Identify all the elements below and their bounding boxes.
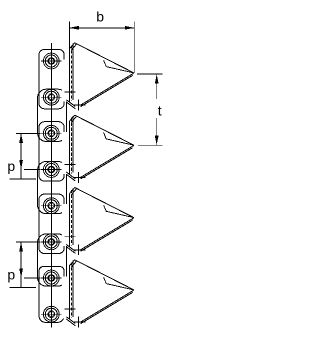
scraper S1 top bevel xyxy=(70,43,77,50)
dimension t arrow bottom xyxy=(155,136,159,145)
dimension p (lower) leader hook xyxy=(10,278,37,287)
dimension b line xyxy=(69,27,134,29)
scraper S3 hidden edge (dashed) xyxy=(70,190,72,246)
scraper S4 hidden edge (dashed) xyxy=(70,262,72,318)
roller R4 xyxy=(41,162,62,178)
scraper S3 bottom edge (double) xyxy=(80,218,134,252)
dimension p (lower) arrow top xyxy=(19,242,23,251)
dimension p (upper) arrow top xyxy=(19,134,23,143)
scraper S4 left edge xyxy=(69,266,71,320)
dimension t line lower segment xyxy=(156,118,158,145)
scraper S3 plate right edge xyxy=(72,188,74,245)
dimension b arrow right xyxy=(125,26,134,30)
scraper S2 strap occluder (hides chain edges behind) xyxy=(62,132,69,174)
dimension t extension line bottom xyxy=(138,144,163,146)
svg-text:p: p xyxy=(7,158,15,174)
scraper S1 plate right edge xyxy=(72,44,74,100)
chain centerline xyxy=(50,43,52,327)
scraper S4 top edge xyxy=(75,260,134,290)
roller R7 xyxy=(41,270,62,286)
dimension p (lower) extension line top xyxy=(16,241,41,243)
chain outer link plate 4 xyxy=(39,266,64,322)
scraper S4 face flange xyxy=(104,277,134,290)
scraper S2 top bevel xyxy=(70,115,77,122)
scraper S1 bottom edge (double) xyxy=(80,73,134,107)
dimension p (upper) extension line top xyxy=(16,132,41,134)
scraper S1 hidden edge (dashed) xyxy=(70,45,72,101)
scraper S2 bottom corner cross mark xyxy=(74,172,86,183)
scraper S2 plate right edge xyxy=(72,116,74,173)
dimension p (lower) arrow bottom xyxy=(19,268,23,277)
chain outer link plate 1 xyxy=(39,49,64,108)
dimension t arrow top xyxy=(155,74,159,83)
scraper S2 hidden edge (dashed) xyxy=(70,118,72,174)
dimension b extension line right xyxy=(133,21,135,72)
scraper S3 bottom corner cross mark xyxy=(74,244,86,255)
dimension t extension line top xyxy=(137,73,163,75)
scraper S1 face flange xyxy=(104,60,134,73)
chain inner link plate 1 xyxy=(38,89,67,141)
scraper S1 strap occluder (hides chain edges behind) xyxy=(62,60,69,102)
chain inner link plate 2 xyxy=(38,162,67,214)
roller R2 xyxy=(41,89,62,105)
scraper S3 bottom bevel xyxy=(66,244,75,253)
chain inner link plate 3 xyxy=(38,234,67,286)
scraper S4 top bevel xyxy=(70,260,77,267)
svg-text:t: t xyxy=(158,103,162,119)
svg-text:p: p xyxy=(7,267,15,283)
scraper S4 bottom edge (double) xyxy=(80,290,134,324)
dimension b extension line left xyxy=(68,22,70,50)
scraper S2 left edge xyxy=(69,121,71,175)
scraper S4 plate bend line xyxy=(65,308,76,310)
scraper S2 plate bend line xyxy=(65,163,76,165)
roller R6 xyxy=(41,234,62,250)
scraper S4 bottom bevel xyxy=(66,317,75,326)
scraper S2 face flange xyxy=(104,133,134,146)
scraper S3 top bevel xyxy=(70,188,77,195)
svg-text:b: b xyxy=(96,8,104,24)
scraper S1 top edge xyxy=(75,43,134,73)
roller R1 xyxy=(41,53,62,69)
scraper S3 strap occluder (hides chain edges behind) xyxy=(62,204,69,246)
scraper S1 plate bend line xyxy=(65,91,76,93)
roller R5 xyxy=(41,198,62,214)
dimension t line upper segment xyxy=(156,74,158,99)
scraper S1 bottom bevel xyxy=(66,100,75,109)
scraper S1 left edge xyxy=(69,49,71,103)
scraper S3 left edge xyxy=(69,193,71,247)
scraper S4 strap occluder (hides chain edges behind) xyxy=(62,277,69,319)
scraper S3 face flange xyxy=(104,205,134,218)
scraper S3 top edge xyxy=(75,188,134,218)
roller R3 xyxy=(41,125,62,141)
dimension b arrow left xyxy=(69,26,78,30)
dimension p (lower) line xyxy=(20,242,22,278)
dimension p (upper) arrow bottom xyxy=(19,160,23,169)
scraper S2 bottom edge (double) xyxy=(80,145,134,179)
roller R8 xyxy=(41,306,62,322)
dimension p (lower) extension line bottom xyxy=(24,277,41,279)
dimension p (upper) extension line bottom xyxy=(24,169,41,171)
scraper S2 top edge xyxy=(75,115,134,145)
chain outer link plate 2 xyxy=(39,122,64,181)
scraper S4 plate right edge xyxy=(72,261,74,318)
scraper S2 bottom bevel xyxy=(66,172,75,181)
chain outer link plate 3 xyxy=(39,194,64,253)
dimension p (upper) leader hook xyxy=(10,170,37,179)
scraper S1 bottom corner cross mark xyxy=(74,100,86,111)
scraper S3 plate bend line xyxy=(65,236,76,238)
scraper S4 bottom corner cross mark xyxy=(74,317,86,328)
dimension p (upper) line xyxy=(20,133,22,169)
